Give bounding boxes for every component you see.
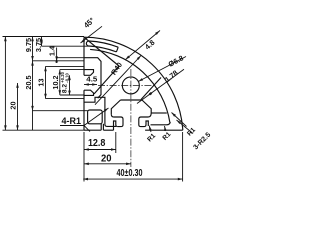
profile left edge lower segment [83, 90, 85, 130]
dim line 10.2 [59, 70, 61, 95]
dim line 12.8 [84, 149, 116, 151]
4-R1 underline [60, 125, 84, 127]
curved slot right cap [116, 47, 118, 52]
45-deg leader [81, 26, 103, 43]
dim line 13 [45, 66, 47, 98]
ext stub y66.4 [46, 65, 85, 67]
corner chamber 4R1 [88, 110, 103, 124]
left slot cavity bottom [84, 97, 105, 106]
right boot foot [144, 121, 148, 127]
dim line 3.75 [41, 37, 43, 47]
svg-text:20: 20 [8, 101, 17, 109]
far left dim line [4, 37, 6, 131]
svg-text:9.75: 9.75 [24, 38, 33, 52]
ext stub y69.6 [60, 69, 84, 71]
dia6.8 leader [138, 57, 186, 82]
right lip boot [139, 113, 151, 127]
profile bottom edge seg3 [145, 129, 183, 131]
ext stub y57.7 [57, 57, 84, 59]
4.8 dim line [125, 31, 160, 61]
svg-text:-0.10: -0.10 [65, 72, 70, 82]
outer R40 arc [84, 37, 183, 130]
boss NE wall [141, 78, 161, 100]
curved slot outer arc [89, 41, 118, 47]
ext stub y98.6 [46, 98, 85, 100]
curved slot inner arc [89, 46, 117, 52]
inner wall arc [90, 49, 170, 122]
horizontal centerline [98, 84, 156, 86]
3-R2.5 leader [177, 120, 194, 134]
center cavity right chamfer [142, 100, 151, 113]
left slot lower lip [84, 90, 94, 95]
left boot foot [114, 121, 118, 130]
top extension line [3, 36, 85, 38]
center cavity left chamfer [111, 100, 120, 114]
R40 leader [95, 56, 141, 105]
bottom ext x115.8 [115, 132, 117, 153]
right chamber divider [151, 112, 167, 114]
ext stub y95 [60, 94, 84, 96]
ext stub y60.8 [33, 60, 85, 62]
svg-text:20.5: 20.5 [24, 75, 33, 89]
ext stub y46.2 [42, 45, 90, 47]
left lip boot [111, 114, 123, 126]
center cavity top [121, 99, 143, 101]
dim line 40 [83, 178, 182, 180]
center bore circle [122, 77, 139, 94]
profile bottom edge seg1 [84, 129, 101, 131]
profile bottom edge seg2 [103, 129, 113, 131]
left slot cavity top [84, 58, 101, 98]
1.78 dim line [137, 69, 184, 103]
45-deg chamfer line [84, 37, 119, 66]
4.5 dim line [84, 84, 97, 86]
R1 leader c [172, 113, 187, 127]
svg-text:8.2: 8.2 [62, 84, 69, 93]
left boot channel [105, 107, 116, 127]
svg-text:20: 20 [101, 154, 112, 165]
R1 leader b [165, 126, 166, 131]
4-R1 leader [84, 108, 109, 126]
dim line 20 left [17, 83, 19, 130]
label 8.2 with tolerance [60, 71, 70, 93]
dim line 20 bottom [84, 163, 131, 165]
svg-text:1.4: 1.4 [47, 45, 56, 56]
bottom slit left wall [100, 124, 102, 130]
dim line 1.4 [56, 48, 58, 64]
curved slot left cap [86, 41, 89, 46]
right chamber floor [151, 122, 171, 125]
ext stub y110.7 [33, 110, 88, 112]
profile left edge upper segment [83, 37, 85, 75]
svg-text:13: 13 [37, 78, 46, 86]
R1 leader a [149, 126, 151, 132]
chain dim line 9.75/20.5 [32, 37, 34, 131]
svg-text:40±0.30: 40±0.30 [117, 168, 143, 179]
svg-text:3.75: 3.75 [34, 38, 43, 52]
left slot upper lip [84, 70, 94, 76]
svg-text:12.8: 12.8 [88, 138, 106, 149]
vertical centerline [130, 69, 132, 167]
bottom ext x84 [83, 132, 85, 182]
dim line 8.2 [69, 75, 71, 95]
svg-text:4.5: 4.5 [86, 75, 97, 84]
svg-text:10.2: 10.2 [51, 75, 60, 89]
4-R1 leader tail [84, 126, 90, 132]
bottom ext x182.6 [182, 132, 184, 182]
svg-text:4-R1: 4-R1 [62, 116, 82, 126]
bottom extension line left [3, 129, 85, 131]
45-deg wall lower [94, 66, 119, 94]
bottom slit right wall [102, 124, 104, 130]
